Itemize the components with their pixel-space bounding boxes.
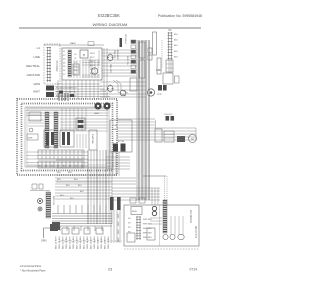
svg-text:BLK: BLK — [60, 195, 64, 197]
svg-text:L1: L1 — [37, 46, 41, 50]
svg-text:ORG-18 BLU: ORG-18 BLU — [87, 236, 89, 249]
board edge connector — [68, 50, 71, 77]
wire band below board — [55, 80, 110, 99]
svg-text:BLK-16 WHT: BLK-16 WHT — [63, 235, 65, 249]
cabinet interior wires — [26, 108, 108, 166]
svg-text:BLK-16 WHT: BLK-16 WHT — [84, 235, 86, 249]
evap connector B — [54, 112, 58, 148]
svg-text:B2: B2 — [63, 166, 65, 168]
svg-text:BLK-16 WHT: BLK-16 WHT — [98, 235, 100, 249]
im ladder — [136, 216, 141, 240]
svg-text:B2: B2 — [75, 166, 77, 168]
svg-text:RC SR: RC SR — [118, 141, 125, 143]
valve 2 — [38, 207, 42, 211]
evap connector A — [45, 112, 49, 148]
water valve motor — [38, 199, 43, 204]
svg-text:WHT: WHT — [33, 90, 40, 94]
svg-text:RLY2: RLY2 — [90, 61, 95, 63]
svg-text:T1: T1 — [47, 155, 49, 157]
im ring B — [152, 211, 156, 215]
svg-text:BLK: BLK — [174, 45, 178, 47]
tall rect B — [139, 60, 145, 78]
relay K1 — [80, 50, 88, 58]
svg-text:* Non-Illustrated Parts: * Non-Illustrated Parts — [20, 269, 46, 273]
footer note — [20, 264, 46, 273]
stack E — [148, 48, 152, 60]
svg-text:BLK-16 WHT: BLK-16 WHT — [77, 235, 79, 249]
svg-text:WHT BLK: WHT BLK — [143, 219, 153, 221]
plug symbol upper — [107, 54, 114, 61]
svg-text:Publication No. 5995584948: Publication No. 5995584948 — [158, 14, 202, 18]
svg-text:ICE MAKER: ICE MAKER — [189, 210, 192, 223]
wires down mid — [60, 210, 122, 243]
ice maker assembly box — [124, 205, 199, 246]
stacked connector column — [131, 40, 136, 73]
fan motor box — [89, 130, 97, 150]
defrost thermostat — [27, 128, 38, 140]
thermostat TH1 — [163, 73, 173, 84]
dashed sense line — [161, 40, 163, 68]
header rule — [19, 27, 201, 29]
svg-text:C3: C3 — [74, 66, 76, 68]
dark pair right — [157, 85, 167, 96]
svg-text:P1 CONN: P1 CONN — [55, 61, 58, 72]
svg-text:C2: C2 — [74, 62, 76, 64]
svg-text:GRN: GRN — [156, 69, 162, 72]
svg-text:COMP: COMP — [112, 125, 118, 127]
svg-text:BLK-16 WHT: BLK-16 WHT — [70, 235, 72, 249]
buzzer BZ1 — [91, 68, 97, 74]
svg-text:WHT BLK: WHT BLK — [143, 233, 153, 235]
terminal row 2 — [38, 161, 84, 168]
svg-text:EVAP FAN: EVAP FAN — [91, 134, 94, 144]
svg-text:RLY1: RLY1 — [90, 57, 95, 59]
svg-text:WHT: WHT — [118, 213, 120, 218]
svg-text:BLK: BLK — [174, 34, 178, 36]
svg-text:MOD: MOD — [132, 211, 138, 213]
svg-text:RLY3: RLY3 — [90, 65, 95, 67]
im left labels — [118, 213, 120, 242]
svg-text:C5: C5 — [74, 74, 76, 76]
valve boxes — [32, 184, 43, 189]
svg-text:BLK: BLK — [66, 185, 70, 187]
connector ring B — [147, 89, 154, 96]
dark strip label — [120, 38, 123, 47]
svg-text:ORG-18 BLU: ORG-18 BLU — [73, 236, 75, 249]
svg-text:B2: B2 — [39, 166, 41, 168]
terminal labels — [174, 34, 178, 58]
svg-text:BLK-16 WHT: BLK-16 WHT — [105, 235, 107, 249]
connector column — [46, 192, 51, 218]
wires board to stacks — [100, 48, 146, 98]
band below cabinet — [55, 178, 112, 199]
condenser fan M — [189, 135, 197, 143]
im harness strip — [163, 200, 167, 233]
diode block — [166, 60, 173, 72]
aux box 2 — [164, 131, 174, 142]
cabinet outline — [17, 99, 117, 175]
svg-text:T1: T1 — [63, 155, 65, 157]
board traces — [82, 50, 100, 77]
svg-text:T1: T1 — [79, 155, 81, 157]
tall rect A — [139, 42, 145, 58]
dark pair mid — [164, 114, 174, 121]
im motor M2 — [170, 234, 175, 239]
svg-text:ORG-18 BLU: ORG-18 BLU — [101, 236, 103, 249]
bottom wire labels — [56, 235, 111, 249]
wires right mid — [117, 119, 196, 140]
svg-text:B2: B2 — [51, 166, 53, 168]
svg-text:23: 23 — [108, 268, 112, 272]
line filter — [46, 86, 54, 98]
svg-text:BLK: BLK — [70, 198, 74, 200]
svg-text:RLY4: RLY4 — [90, 69, 95, 71]
im label col — [128, 218, 153, 239]
svg-text:BLK: BLK — [174, 51, 178, 53]
svg-text:T1: T1 — [75, 155, 77, 157]
power connector P1 — [44, 44, 60, 84]
svg-text:BLK: BLK — [78, 185, 82, 187]
svg-text:A Functional Parts: A Functional Parts — [20, 264, 42, 268]
harness entry cluster — [59, 93, 68, 101]
svg-text:T1: T1 — [67, 155, 69, 157]
run capacitor — [113, 144, 118, 152]
interior lamp L1 — [94, 102, 102, 115]
compressor box — [110, 120, 132, 152]
junction cluster — [52, 222, 60, 230]
interior lamp L2 — [103, 102, 110, 109]
ladder tails — [169, 60, 171, 73]
svg-text:WHT: WHT — [118, 229, 120, 234]
board pin labels — [63, 51, 66, 76]
relay box RB — [76, 118, 85, 130]
svg-text:BLK-16 WHT: BLK-16 WHT — [91, 235, 93, 249]
svg-text:BLK: BLK — [74, 179, 78, 181]
ground wire — [41, 224, 58, 243]
svg-text:BLK: BLK — [57, 172, 61, 174]
svg-text:RED YEL: RED YEL — [126, 56, 128, 66]
im box 1 — [127, 233, 135, 242]
svg-text:CPR: CPR — [157, 94, 162, 96]
under board labels — [56, 88, 77, 98]
svg-text:P12 BLK P13 WHT GY: P12 BLK P13 WHT GY — [56, 88, 77, 90]
svg-text:MOLD HTR: MOLD HTR — [194, 226, 196, 238]
vertical bundle bottom — [56, 150, 112, 224]
harness bundle — [137, 40, 150, 200]
relay K2 — [73, 64, 79, 75]
svg-text:WHT BLK: WHT BLK — [143, 228, 153, 230]
aux box 1 — [155, 129, 162, 142]
connector ring A — [120, 90, 126, 96]
im motor M1 — [163, 234, 168, 239]
svg-text:GRN: GRN — [41, 240, 47, 243]
terminal row 1 text — [39, 155, 83, 168]
im ring A — [152, 206, 156, 210]
board traces vertical — [74, 60, 98, 78]
svg-text:ORG-18 BLU: ORG-18 BLU — [66, 236, 68, 249]
wire — [30, 190, 50, 192]
im module box — [131, 207, 142, 215]
im box 2 — [147, 228, 155, 240]
svg-text:OVL RLY: OVL RLY — [164, 114, 173, 116]
wires below compressor — [106, 152, 136, 184]
svg-text:BRN WHT: BRN WHT — [116, 50, 118, 60]
top feed wire — [44, 42, 104, 46]
svg-text:T1: T1 — [39, 155, 41, 157]
svg-text:C1: C1 — [74, 58, 76, 60]
svg-text:T1: T1 — [59, 155, 61, 157]
dark blob mid — [177, 136, 185, 142]
svg-text:C4: C4 — [74, 70, 76, 72]
svg-text:GRN: GRN — [33, 82, 40, 86]
bottom connector boxes — [62, 228, 103, 234]
terminal strip TB1 — [168, 29, 173, 60]
heater H2 box — [60, 130, 74, 147]
junction box H — [130, 78, 137, 91]
svg-text:LAMP: LAMP — [94, 112, 100, 115]
board silk text — [74, 53, 95, 76]
under board dark bits — [59, 91, 63, 94]
svg-text:WTR VLV: WTR VLV — [52, 196, 54, 206]
svg-text:T1: T1 — [43, 155, 45, 157]
svg-text:BLK: BLK — [68, 172, 72, 174]
svg-text:RLY0: RLY0 — [90, 53, 95, 55]
svg-text:BLK: BLK — [174, 56, 178, 58]
interior left box — [29, 112, 41, 121]
svg-text:NEUTRAL: NEUTRAL — [26, 64, 40, 68]
svg-text:BLK: BLK — [57, 179, 61, 181]
svg-text:ORG-18 BLU: ORG-18 BLU — [94, 236, 96, 249]
tall rect D — [157, 58, 161, 74]
svg-text:ORG BLU: ORG BLU — [124, 34, 126, 44]
svg-text:WHT: WHT — [118, 237, 120, 242]
svg-text:WHT: WHT — [118, 221, 120, 226]
svg-text:0714: 0714 — [189, 268, 197, 272]
svg-text:GROUND: GROUND — [27, 73, 41, 77]
svg-text:DEF: DEF — [28, 138, 33, 140]
svg-text:BLK: BLK — [80, 191, 84, 193]
svg-text:C0: C0 — [74, 54, 76, 56]
supply wire labels — [26, 46, 41, 94]
boxes above ice maker — [130, 198, 145, 203]
svg-text:MAIN: MAIN — [70, 42, 76, 45]
svg-text:WIRING DIAGRAM: WIRING DIAGRAM — [93, 22, 128, 27]
compressor text — [112, 125, 118, 131]
im interior wires — [150, 216, 183, 235]
aux small box — [175, 76, 180, 83]
bottom horizontal band — [52, 205, 112, 231]
terminal row 1 — [38, 150, 84, 159]
svg-text:T1: T1 — [71, 155, 73, 157]
start relay — [121, 144, 126, 152]
svg-text:PNK VIO: PNK VIO — [113, 50, 115, 59]
ice maker bottom dashed — [124, 248, 199, 250]
im heater oval — [178, 234, 184, 239]
svg-text:M: M — [191, 137, 193, 141]
svg-text:ORG-18 BLU: ORG-18 BLU — [59, 236, 61, 249]
scatter labels left of bundle — [57, 172, 84, 200]
heater H1 box — [44, 130, 57, 147]
im divider — [159, 205, 161, 246]
svg-text:ORG-18 BLU: ORG-18 BLU — [108, 236, 110, 249]
svg-text:T1: T1 — [55, 155, 57, 157]
svg-text:RUN: RUN — [112, 129, 117, 131]
tall rect C — [153, 32, 157, 55]
plug symbol lower — [107, 85, 114, 92]
svg-text:EI23BC35K: EI23BC35K — [98, 13, 120, 18]
main control board — [62, 48, 102, 80]
svg-text:BLK: BLK — [174, 40, 178, 42]
svg-text:WHT BLK: WHT BLK — [143, 237, 153, 239]
svg-text:ORG-18 BLU: ORG-18 BLU — [80, 236, 82, 249]
bundle bend to ice maker — [112, 176, 167, 205]
solenoid bars — [110, 197, 121, 210]
svg-text:BLK-16 WHT: BLK-16 WHT — [56, 235, 58, 249]
svg-text:TAN GRY: TAN GRY — [109, 64, 112, 74]
svg-text:T1: T1 — [51, 155, 53, 157]
svg-text:LINE: LINE — [33, 55, 40, 59]
